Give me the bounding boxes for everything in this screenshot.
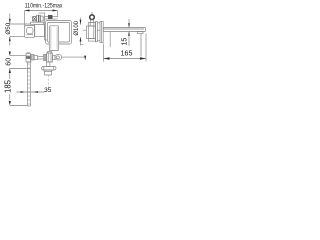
svg-text:Ø100: Ø100 <box>74 20 80 35</box>
svg-text:165: 165 <box>121 50 133 57</box>
svg-text:185: 185 <box>4 79 13 93</box>
svg-text:15: 15 <box>122 38 129 46</box>
svg-text:60: 60 <box>3 58 12 66</box>
svg-text:110min.-125max: 110min.-125max <box>25 4 63 10</box>
svg-text:35: 35 <box>44 87 52 94</box>
svg-text:Ø50: Ø50 <box>5 22 12 34</box>
